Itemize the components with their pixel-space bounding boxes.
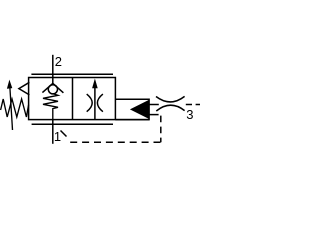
wire port 3 dashed: [186, 104, 200, 106]
check valve spring: [43, 94, 58, 120]
wire stub box bottom continuation: [115, 119, 149, 121]
relief flow line: [94, 87, 96, 119]
wire port 2 line: [52, 55, 54, 84]
wire pilot dashed vertical: [160, 115, 162, 143]
wire bottom rail: [32, 123, 113, 125]
svg-text:3: 3: [186, 107, 193, 122]
check valve seat: [42, 83, 63, 92]
wire top rail: [31, 73, 113, 75]
wire pilot dashed diagonal: [61, 131, 67, 137]
relief flow arrowhead: [92, 79, 98, 89]
svg-text:1: 1: [54, 129, 61, 144]
pilot triangle left unfilled: [19, 82, 30, 95]
valve body box: [29, 78, 116, 120]
wire port 1 line: [52, 120, 54, 144]
wire pilot dashed horizontal: [70, 141, 160, 143]
pilot piston stub box: [115, 99, 149, 119]
wire lower pilot line: [149, 114, 159, 116]
spring left adjustable: [1, 99, 29, 117]
restriction arcs in relief path: [87, 94, 93, 112]
pilot triangle filled: [130, 100, 149, 119]
check valve ball: [48, 85, 57, 94]
orifice top arc: [156, 96, 185, 102]
wire upper pilot line: [149, 104, 159, 106]
svg-text:2: 2: [55, 54, 62, 69]
adjustment arrowhead: [7, 80, 12, 89]
wire compartment divider: [72, 78, 74, 120]
adjustment arrow shaft: [10, 88, 13, 131]
orifice bottom arc: [156, 105, 184, 111]
